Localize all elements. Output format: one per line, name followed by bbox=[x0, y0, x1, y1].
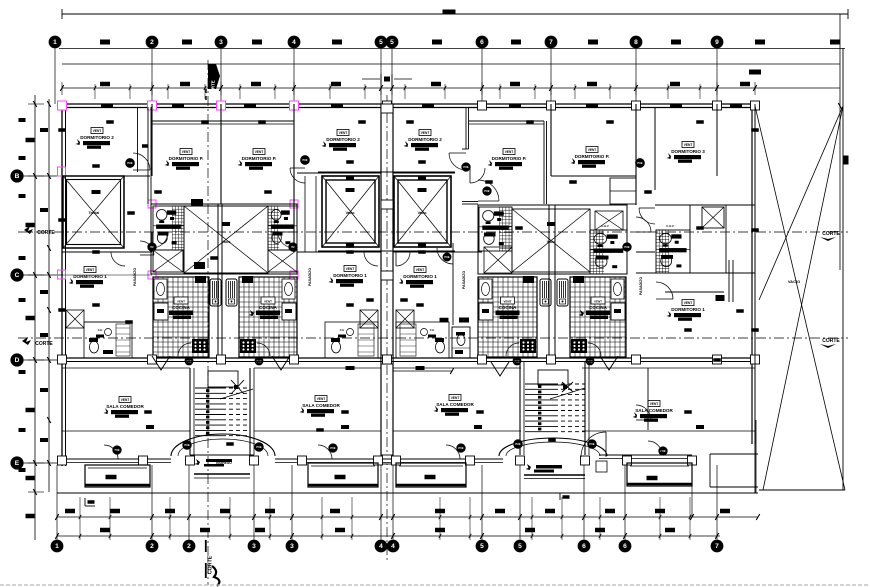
svg-text:Tendal: Tendal bbox=[89, 211, 100, 215]
door arc dorm2 mid-right bbox=[470, 168, 485, 183]
svg-text:9: 9 bbox=[715, 39, 719, 46]
svg-text:VENT: VENT bbox=[594, 300, 602, 304]
label dormitorio p left-a bbox=[180, 149, 192, 155]
svg-text:5: 5 bbox=[480, 543, 484, 550]
wall row mid-left bbox=[62, 251, 152, 253]
core right bath right bbox=[590, 230, 627, 274]
svg-text:4: 4 bbox=[379, 543, 383, 550]
label sala comedor 2 bbox=[315, 396, 327, 402]
stair west treads bbox=[195, 387, 222, 389]
svg-text:VENT: VENT bbox=[121, 398, 130, 402]
stair bay porch front east bbox=[536, 465, 562, 469]
svg-text:DORMITORIO 2: DORMITORIO 2 bbox=[80, 135, 114, 140]
vacio right boundary bbox=[842, 48, 844, 490]
svg-text:C: C bbox=[15, 272, 20, 279]
svg-text:3: 3 bbox=[290, 543, 294, 550]
stair east arrow bbox=[550, 388, 585, 399]
door arc dorm2 mid-left bbox=[290, 168, 305, 183]
svg-text:DORMITORIO 3: DORMITORIO 3 bbox=[671, 149, 705, 154]
core right closet X top bbox=[595, 211, 623, 230]
svg-text:6: 6 bbox=[480, 39, 484, 46]
svg-text:PUE: PUE bbox=[330, 447, 335, 450]
stair east landing bbox=[538, 370, 568, 385]
core left bath east bbox=[268, 206, 297, 250]
svg-text:VENT: VENT bbox=[650, 402, 659, 406]
svg-text:4: 4 bbox=[292, 39, 296, 46]
vacio X lower bbox=[763, 106, 843, 490]
svg-text:DORMITORIO 2: DORMITORIO 2 bbox=[408, 137, 442, 142]
section line horizontal upper bbox=[18, 231, 848, 233]
svg-text:PUE: PUE bbox=[515, 443, 520, 446]
svg-text:CORTE: CORTE bbox=[208, 555, 214, 574]
svg-text:VENT: VENT bbox=[588, 148, 597, 152]
door arc dormP left-a bbox=[152, 232, 168, 248]
pue circles bbox=[126, 159, 135, 168]
svg-text:3: 3 bbox=[219, 39, 223, 46]
svg-text:DORMITORIO 1: DORMITORIO 1 bbox=[671, 307, 705, 312]
svg-text:PUE: PUE bbox=[184, 444, 189, 447]
core left vacio X bbox=[184, 206, 268, 273]
svg-text:PUE: PUE bbox=[256, 446, 261, 449]
svg-text:VACIO: VACIO bbox=[788, 279, 800, 284]
left patio ticks bbox=[62, 247, 124, 249]
kitchen right-core east bbox=[570, 277, 626, 357]
dimension line top third bbox=[62, 63, 840, 65]
svg-text:C.H: C.H bbox=[98, 328, 103, 332]
label dormitorio 2 mid-left bbox=[337, 130, 349, 136]
svg-text:COCINA: COCINA bbox=[499, 305, 517, 310]
kitchen left-core east bbox=[239, 277, 297, 357]
grid leader lines top bbox=[54, 49, 56, 105]
bottom dim line 2 bbox=[57, 535, 720, 537]
svg-text:VENT: VENT bbox=[177, 300, 185, 304]
wall top recessed unit4 bbox=[469, 120, 544, 122]
core left closet X east bbox=[268, 250, 297, 272]
entrance arch east bbox=[499, 438, 607, 456]
wall row D second bbox=[62, 367, 190, 369]
svg-text:1: 1 bbox=[53, 39, 57, 46]
svg-text:DORMITORIO P.: DORMITORIO P. bbox=[242, 156, 277, 161]
wall top main bbox=[62, 103, 755, 105]
svg-text:PASADIZO: PASADIZO bbox=[639, 277, 643, 296]
label dormitorio 2 mid-right bbox=[419, 130, 431, 136]
svg-text:CORTE: CORTE bbox=[35, 341, 53, 347]
label dormitorio 1 right bbox=[682, 300, 694, 306]
svg-text:PASADIZO: PASADIZO bbox=[308, 268, 312, 287]
label dormitorio p mid bbox=[503, 149, 515, 155]
svg-text:8: 8 bbox=[634, 39, 638, 46]
stair west landing bbox=[208, 371, 238, 387]
svg-text:5: 5 bbox=[518, 543, 522, 550]
center column bracket detail bbox=[362, 78, 380, 80]
svg-text:VENT: VENT bbox=[505, 150, 514, 154]
closet right room 551-636 bbox=[610, 178, 636, 204]
core right bath left bbox=[479, 207, 512, 251]
svg-text:1: 1 bbox=[55, 543, 59, 550]
core left closet X bbox=[153, 250, 183, 272]
svg-text:2: 2 bbox=[150, 39, 154, 46]
label dormitorio 1 mid-left bbox=[344, 266, 356, 272]
label sala comedor 4 bbox=[648, 401, 660, 407]
column blocks on top wall bbox=[58, 101, 67, 110]
svg-text:VENT: VENT bbox=[346, 267, 355, 271]
patio center border bbox=[318, 171, 455, 173]
fridges left core bbox=[210, 279, 221, 306]
bath mid-left unit bbox=[325, 322, 378, 358]
patio left X bbox=[63, 176, 124, 248]
svg-text:PUE: PUE bbox=[444, 256, 449, 259]
svg-text:PUE: PUE bbox=[624, 246, 629, 249]
door arc dormP left-b bbox=[278, 232, 294, 248]
fridges right core bbox=[540, 279, 551, 306]
svg-text:DORMITORIO 1: DORMITORIO 1 bbox=[403, 274, 437, 279]
svg-text:DORMITORIO 1: DORMITORIO 1 bbox=[333, 273, 367, 278]
closet X mid-right unit bbox=[396, 310, 414, 328]
svg-text:CORTE: CORTE bbox=[822, 231, 840, 237]
svg-text:D: D bbox=[15, 357, 20, 364]
svg-text:VENT: VENT bbox=[264, 300, 272, 304]
core right box bbox=[478, 205, 627, 274]
corridor walls bbox=[137, 107, 139, 172]
grid bubbles top row bbox=[49, 36, 61, 48]
svg-text:VENT: VENT bbox=[86, 268, 95, 272]
svg-text:SALA COMEDOR: SALA COMEDOR bbox=[302, 403, 340, 408]
beam lines living rooms bbox=[62, 430, 190, 432]
patio center-right X bbox=[394, 176, 451, 247]
svg-text:VENT: VENT bbox=[684, 143, 693, 147]
grid bubble row E bbox=[11, 457, 23, 469]
svg-text:PUE: PUE bbox=[458, 447, 463, 450]
dimension line right bbox=[839, 14, 841, 270]
door arc dormP east bbox=[636, 217, 651, 232]
svg-text:2: 2 bbox=[150, 543, 154, 550]
svg-text:COCINA: COCINA bbox=[172, 305, 190, 310]
closet X left unit bbox=[66, 310, 84, 328]
svg-text:SALA COMEDOR: SALA COMEDOR bbox=[106, 404, 144, 409]
svg-text:VENT: VENT bbox=[416, 268, 425, 272]
section line vertical center bbox=[386, 95, 388, 560]
left margin extra blobs bbox=[19, 118, 26, 122]
stair east treads bbox=[525, 383, 554, 385]
stair bay walls east bbox=[519, 361, 521, 455]
svg-text:PUE: PUE bbox=[589, 443, 594, 446]
stair west arrow bbox=[220, 389, 253, 399]
porch right corner mark bbox=[559, 493, 561, 500]
wall row B segments bbox=[62, 175, 150, 177]
label dormitorio 2 left bbox=[91, 128, 103, 134]
svg-text:VENT: VENT bbox=[339, 131, 348, 135]
patio center-left X bbox=[322, 176, 379, 247]
porch mid-right bbox=[396, 463, 466, 487]
svg-text:CORTE: CORTE bbox=[37, 230, 55, 236]
closet X mid-left unit bbox=[360, 310, 378, 328]
wall row E bbox=[62, 458, 171, 460]
label dormitorio 1 left bbox=[84, 267, 96, 273]
svg-text:3: 3 bbox=[252, 543, 256, 550]
corridor wall unit4 bbox=[452, 243, 454, 325]
wall left outer bbox=[61, 104, 63, 466]
svg-text:Vacio: Vacio bbox=[418, 211, 427, 215]
wall row D main bbox=[62, 357, 755, 359]
porch mid-left bbox=[308, 463, 378, 487]
door arc right unit bbox=[639, 208, 655, 224]
svg-text:COCINA: COCINA bbox=[259, 305, 277, 310]
porch left bbox=[85, 465, 150, 487]
svg-text:C.H: C.H bbox=[430, 328, 435, 332]
corte marker bottom bbox=[205, 540, 207, 557]
window marks top wall bbox=[101, 104, 113, 107]
facade line bottom bbox=[57, 492, 758, 494]
grid bubble row B bbox=[11, 170, 23, 182]
svg-text:C.H.V: C.H.V bbox=[666, 224, 674, 228]
dim blobs top row bbox=[100, 40, 110, 45]
svg-text:SALA COMEDOR: SALA COMEDOR bbox=[635, 408, 673, 413]
section line vertical bbox=[207, 60, 209, 585]
svg-text:7: 7 bbox=[715, 543, 719, 550]
grid bubble row C bbox=[11, 269, 23, 281]
svg-text:SALA COMEDOR: SALA COMEDOR bbox=[436, 402, 474, 407]
kitchen right-core west bbox=[478, 277, 537, 357]
svg-text:DORMITORIO P.: DORMITORIO P. bbox=[575, 154, 610, 159]
svg-text:DORMITORIO P.: DORMITORIO P. bbox=[492, 156, 527, 161]
svg-text:PUE: PUE bbox=[463, 166, 468, 169]
dimension line top outer bbox=[62, 13, 848, 15]
core left bath upper bbox=[153, 206, 184, 250]
wall row C segments bbox=[62, 274, 152, 276]
magenta column markers top bbox=[58, 101, 67, 110]
door arc dorm2 left bbox=[133, 153, 150, 170]
vacio X upper bbox=[755, 106, 845, 490]
svg-text:VENT: VENT bbox=[182, 150, 191, 154]
wall top recessed left units bbox=[152, 120, 294, 122]
svg-text:6: 6 bbox=[582, 543, 586, 550]
door funnel V marks bbox=[152, 356, 170, 370]
svg-text:5: 5 bbox=[379, 39, 383, 46]
svg-text:COCINA: COCINA bbox=[589, 305, 607, 310]
door arc dorm1 doors bbox=[111, 252, 125, 266]
svg-text:VENT: VENT bbox=[255, 150, 264, 154]
right unit dorm1 north wall bbox=[665, 291, 724, 293]
column blocks row D bbox=[58, 355, 67, 364]
label dormitorio p east bbox=[586, 147, 598, 153]
column blocks row E bbox=[58, 456, 67, 465]
core left box bbox=[151, 204, 297, 274]
entrance arch west bbox=[171, 434, 275, 456]
svg-text:2: 2 bbox=[187, 543, 191, 550]
svg-text:Vacio: Vacio bbox=[346, 211, 355, 215]
door arc stairbay east side bbox=[581, 432, 606, 457]
svg-text:PUE: PUE bbox=[127, 162, 132, 165]
svg-text:6: 6 bbox=[623, 543, 627, 550]
label dormitorio 1 mid-right bbox=[414, 267, 426, 273]
svg-text:VENT: VENT bbox=[684, 301, 693, 305]
svg-text:Vacio: Vacio bbox=[547, 240, 556, 244]
bottom dim line 1 bbox=[57, 516, 758, 518]
wall core left divider bbox=[217, 204, 219, 357]
svg-text:Vacio: Vacio bbox=[222, 240, 231, 244]
svg-text:PUE: PUE bbox=[302, 159, 307, 162]
wall verticals top band bbox=[151, 104, 153, 176]
porch left corner mark bbox=[84, 498, 86, 506]
door arc corridor mid bbox=[449, 153, 466, 170]
svg-text:E: E bbox=[15, 460, 20, 467]
svg-text:DORMITORIO 2: DORMITORIO 2 bbox=[326, 137, 360, 142]
svg-text:5: 5 bbox=[390, 39, 394, 46]
corte marker top bbox=[208, 64, 220, 89]
right unit inner walls bbox=[689, 205, 691, 252]
bottom edge faint ruler bbox=[0, 584, 870, 586]
closet X right unit bbox=[702, 207, 724, 228]
label sala comedor 1 bbox=[119, 397, 131, 403]
stair bay walls west bbox=[189, 368, 191, 455]
svg-text:CORTE: CORTE bbox=[822, 338, 840, 344]
svg-text:VENT: VENT bbox=[93, 129, 102, 133]
kitchen left-core west bbox=[153, 277, 209, 357]
svg-text:PUE: PUE bbox=[637, 162, 642, 165]
dimension line top second bbox=[59, 48, 845, 50]
wall core right divider bbox=[548, 205, 550, 357]
svg-text:DORMITORIO 1: DORMITORIO 1 bbox=[73, 274, 107, 279]
svg-text:VENT: VENT bbox=[451, 396, 460, 400]
magenta markers left wall bbox=[58, 167, 66, 176]
magenta markers core corners bbox=[148, 200, 156, 208]
dimension line left inner bbox=[48, 99, 50, 492]
stair bay porch front west bbox=[190, 454, 254, 456]
core right closet X bbox=[484, 247, 512, 273]
bath left unit bbox=[84, 322, 132, 358]
bath mid-right unit bbox=[396, 322, 449, 358]
svg-text:B: B bbox=[15, 173, 20, 180]
svg-text:PASADIZO: PASADIZO bbox=[462, 271, 466, 290]
dimension line top inner with ticks bbox=[62, 87, 840, 89]
svg-text:CORTE: CORTE bbox=[211, 80, 216, 95]
row D dim blobs bbox=[346, 366, 355, 370]
grid bubbles bottom row bbox=[51, 540, 63, 552]
core right vacio X bbox=[512, 209, 590, 272]
wall center double bbox=[380, 104, 382, 462]
label dormitorio 3 right bbox=[682, 142, 694, 148]
right step walls bbox=[710, 453, 758, 455]
svg-text:PASADIZO: PASADIZO bbox=[133, 268, 137, 287]
grid leader lines bottom bbox=[56, 465, 58, 540]
svg-text:DORMITORIO P.: DORMITORIO P. bbox=[169, 156, 204, 161]
svg-text:4: 4 bbox=[391, 543, 395, 550]
porch right bbox=[627, 463, 692, 486]
svg-text:VENT: VENT bbox=[317, 397, 326, 401]
label sala comedor 3 bbox=[449, 395, 461, 401]
dimension line left outer bbox=[34, 95, 36, 540]
right unit bath bbox=[656, 230, 690, 273]
label dormitorio p left-b bbox=[253, 149, 265, 155]
svg-text:7: 7 bbox=[549, 39, 553, 46]
interior small blobs bbox=[92, 164, 100, 168]
wall right outer unit bbox=[751, 104, 753, 444]
svg-text:VENT: VENT bbox=[421, 131, 430, 135]
section line horizontal lower bbox=[18, 337, 848, 339]
svg-text:VENT: VENT bbox=[503, 300, 511, 304]
window dim extension lines top bbox=[94, 84, 96, 99]
door arc corridor left bbox=[140, 241, 154, 255]
window dim extension lines bottom bbox=[79, 497, 81, 540]
svg-text:PUE: PUE bbox=[484, 190, 489, 193]
grid bubble row D bbox=[11, 354, 23, 366]
bath small unit4 east bbox=[452, 327, 470, 358]
svg-text:C.H: C.H bbox=[340, 328, 345, 332]
door arcs row E porch doors bbox=[104, 445, 118, 459]
